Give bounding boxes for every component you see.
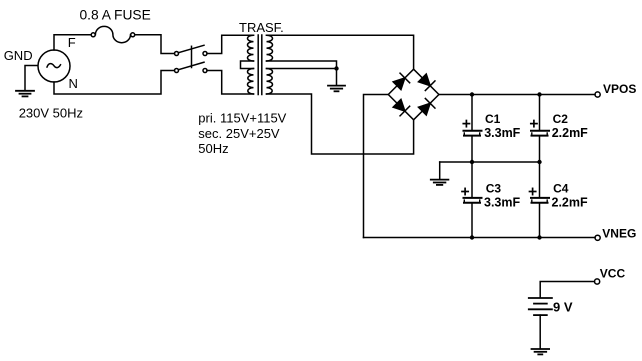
wire: center tap to ground	[336, 69, 338, 86]
wire: secondary center tap upper	[267, 61, 337, 69]
svg-text:3.3mF: 3.3mF	[484, 195, 520, 209]
C3 polarity plus	[462, 188, 468, 194]
wire: bridge negative to VNEG rail	[364, 95, 389, 238]
switch SW1 (double pole)	[175, 45, 208, 72]
wire: secondary center tap lower	[267, 68, 337, 70]
ground (secondary center tap)	[328, 86, 345, 92]
junction: VNEG C4	[537, 235, 541, 239]
wire: fuse to switch F pole	[135, 35, 175, 54]
capacitor C2 lead bottom	[539, 137, 541, 163]
svg-text:C2: C2	[553, 112, 569, 126]
capacitor C2	[531, 131, 549, 136]
terminal VNEG	[595, 235, 600, 240]
svg-text:VNEG: VNEG	[602, 227, 636, 241]
diode D1 (left to top)	[393, 73, 409, 89]
wire: secondary bottom to bridge bottom	[267, 94, 414, 154]
terminal VCC	[595, 279, 600, 284]
diode D3 (left to bottom)	[393, 99, 409, 115]
C4 polarity plus	[530, 188, 536, 194]
wire: VCC to battery	[540, 282, 594, 298]
capacitor C1 lead top	[471, 95, 473, 131]
wire: source bottom to switch N pole	[54, 71, 174, 95]
svg-text:2.2mF: 2.2mF	[552, 195, 588, 209]
wire: source top to fuse	[54, 35, 91, 50]
capacitor C1	[464, 131, 482, 136]
wire: switch N to primary bottom	[207, 71, 254, 95]
wire: mid rail ground stub	[439, 162, 441, 179]
wire: VNEG rail	[364, 237, 596, 239]
capacitor C3 lead top	[471, 162, 473, 197]
capacitor C1 lead bottom	[471, 137, 473, 163]
wire: mid rail	[440, 161, 540, 163]
bridge rectifier D1-D4 diamond	[388, 69, 439, 120]
capacitor C3	[464, 198, 482, 203]
terminal VPOS	[595, 92, 600, 97]
svg-text:230V 50Hz: 230V 50Hz	[19, 105, 83, 120]
capacitor C4 lead bottom	[539, 204, 541, 238]
svg-text:50Hz: 50Hz	[198, 141, 228, 156]
diode D4 (bottom to right)	[418, 98, 434, 114]
junction: C2 top	[537, 92, 541, 96]
diode D2 (top to right)	[418, 74, 434, 90]
svg-text:TRASF.: TRASF.	[239, 20, 284, 35]
svg-text:F: F	[68, 35, 76, 50]
svg-text:3.3mF: 3.3mF	[484, 126, 520, 140]
svg-text:9 V: 9 V	[553, 300, 573, 315]
svg-text:N: N	[69, 76, 78, 91]
svg-text:C3: C3	[486, 182, 502, 196]
svg-text:GND: GND	[4, 48, 33, 63]
wire: battery to ground	[539, 315, 541, 349]
ground (battery)	[532, 349, 550, 354]
transformer T1 core	[258, 35, 262, 95]
svg-text:pri. 115V+115V: pri. 115V+115V	[198, 111, 286, 126]
ground (output common)	[431, 180, 449, 185]
capacitor C4	[531, 198, 549, 203]
ground (mains earth)	[16, 91, 34, 97]
transformer T1 primary winding	[241, 35, 254, 94]
junction: VNEG C3	[470, 235, 474, 239]
svg-text:VPOS: VPOS	[603, 82, 636, 96]
junction: center tap	[334, 66, 338, 70]
svg-text:sec. 25V+25V: sec. 25V+25V	[198, 126, 280, 141]
svg-text:VCC: VCC	[600, 267, 626, 281]
battery B1 9V	[529, 298, 552, 315]
C1 polarity plus	[463, 121, 469, 127]
svg-text:0.8 A FUSE: 0.8 A FUSE	[80, 8, 151, 23]
AC source V1	[38, 50, 70, 82]
junction: mid rail C1/C3	[470, 160, 474, 164]
wire: switch F to primary top	[207, 35, 254, 53]
junction: mid rail C2/C4	[537, 160, 541, 164]
wire: source left to ground	[25, 66, 38, 90]
fuse F1 0.8A	[91, 26, 135, 42]
wire: VPOS rail	[439, 94, 595, 96]
svg-text:2.2mF: 2.2mF	[552, 126, 588, 140]
capacitor C4 lead top	[539, 162, 541, 197]
wire: secondary top to bridge top	[267, 35, 414, 69]
transformer T1 secondary winding	[267, 35, 273, 94]
C2 polarity plus	[531, 121, 537, 127]
junction: C1 top	[470, 92, 474, 96]
capacitor C3 lead bottom	[471, 204, 473, 238]
capacitor C2 lead top	[539, 95, 541, 131]
svg-text:C4: C4	[553, 182, 569, 196]
svg-text:C1: C1	[485, 112, 501, 126]
